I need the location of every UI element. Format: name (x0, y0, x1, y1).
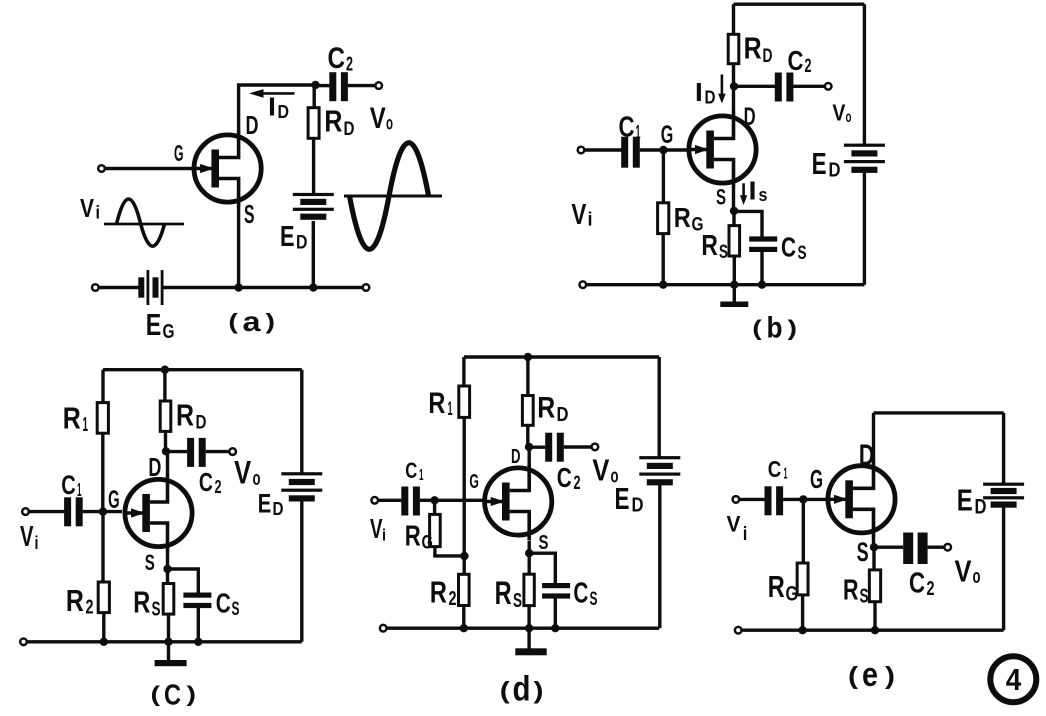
svg-text:G: G (163, 321, 175, 343)
svg-text:D: D (829, 160, 841, 182)
svg-text:R: R (405, 521, 421, 553)
svg-text:i: i (588, 209, 593, 230)
svg-text:C: C (405, 458, 417, 483)
svg-text:): ) (187, 682, 197, 707)
svg-text:1: 1 (784, 466, 788, 483)
svg-text:I: I (268, 92, 276, 122)
svg-text:C: C (573, 578, 588, 610)
svg-text:R: R (537, 392, 555, 425)
svg-text:G: G (810, 464, 823, 494)
svg-text:S: S (145, 550, 155, 575)
svg-text:V: V (234, 454, 252, 490)
svg-text:i: i (35, 533, 39, 553)
svg-text:C: C (788, 45, 804, 76)
svg-text:R: R (674, 202, 691, 233)
svg-text:i: i (743, 524, 748, 545)
svg-text:V: V (370, 102, 386, 135)
svg-text:C: C (768, 456, 782, 482)
svg-text:V: V (592, 453, 609, 488)
svg-text:o: o (386, 114, 393, 135)
svg-text:V: V (20, 521, 34, 553)
svg-text:S: S (798, 243, 807, 264)
svg-text:1: 1 (77, 480, 82, 500)
svg-text:(: ( (151, 682, 161, 707)
svg-text:D: D (278, 102, 290, 122)
svg-text:o: o (973, 566, 981, 588)
svg-text:S: S (539, 532, 549, 554)
svg-text:R: R (428, 387, 445, 420)
svg-text:C: C (557, 462, 572, 493)
svg-text:R: R (744, 31, 762, 66)
svg-text:2: 2 (574, 473, 581, 494)
svg-text:R: R (430, 575, 447, 610)
svg-text:o: o (846, 109, 852, 126)
svg-text:S: S (152, 599, 161, 621)
svg-text:4: 4 (1006, 662, 1022, 697)
svg-text:C: C (328, 42, 346, 75)
svg-text:R: R (66, 583, 84, 618)
svg-text:C: C (199, 467, 213, 497)
svg-text:D: D (273, 499, 284, 519)
svg-text:S: S (860, 586, 869, 608)
svg-text:R: R (63, 400, 81, 435)
svg-text:d: d (513, 670, 531, 709)
svg-text:1: 1 (636, 123, 641, 144)
svg-text:R: R (495, 575, 512, 611)
svg-text:E: E (812, 146, 827, 181)
svg-text:S: S (513, 590, 522, 612)
svg-text:2: 2 (449, 588, 457, 610)
svg-text:e: e (862, 656, 878, 694)
svg-text:D: D (246, 110, 259, 140)
svg-text:(: ( (752, 316, 762, 341)
svg-text:C: C (61, 470, 76, 500)
svg-text:V: V (370, 513, 383, 544)
svg-text:): ) (885, 662, 895, 690)
svg-text:R: R (176, 397, 194, 432)
svg-text:(: ( (500, 678, 510, 705)
svg-text:D: D (975, 496, 987, 519)
svg-text:I: I (749, 176, 757, 206)
svg-text:): ) (534, 678, 544, 705)
svg-text:D: D (344, 119, 355, 140)
svg-text:(: ( (228, 309, 238, 334)
svg-text:D: D (511, 446, 521, 468)
svg-text:S: S (716, 184, 726, 209)
svg-text:G: G (422, 533, 434, 554)
svg-text:2: 2 (805, 56, 812, 77)
svg-text:1: 1 (419, 467, 424, 484)
svg-text:V: V (832, 99, 846, 125)
svg-text:C: C (781, 231, 796, 262)
svg-text:V: V (80, 193, 95, 223)
svg-text:R: R (843, 574, 859, 606)
svg-text:C: C (164, 679, 181, 711)
svg-text:G: G (469, 471, 479, 493)
svg-text:2: 2 (927, 578, 935, 600)
svg-text:i: i (96, 203, 101, 223)
svg-text:s: s (759, 185, 768, 205)
svg-text:G: G (661, 121, 674, 149)
svg-text:o: o (253, 468, 261, 490)
svg-text:D: D (632, 495, 644, 517)
svg-text:S: S (232, 599, 240, 620)
svg-text:D: D (196, 413, 207, 434)
svg-text:S: S (590, 589, 598, 610)
svg-text:2: 2 (86, 597, 94, 619)
svg-text:S: S (857, 537, 869, 567)
svg-text:E: E (280, 221, 295, 253)
svg-text:G: G (786, 583, 799, 606)
svg-text:S: S (719, 242, 728, 263)
svg-text:E: E (258, 489, 272, 519)
svg-text:R: R (701, 230, 718, 262)
svg-text:R: R (133, 585, 150, 620)
svg-text:1: 1 (448, 399, 453, 420)
svg-text:R: R (768, 569, 785, 604)
svg-text:E: E (957, 483, 973, 518)
svg-text:): ) (266, 309, 276, 334)
svg-text:): ) (788, 316, 798, 341)
svg-text:D: D (763, 46, 773, 67)
svg-text:D: D (557, 404, 569, 426)
svg-text:C: C (216, 588, 231, 619)
svg-text:2: 2 (346, 54, 353, 76)
svg-text:D: D (705, 87, 716, 107)
svg-text:2: 2 (215, 477, 222, 497)
svg-text:V: V (727, 511, 741, 536)
svg-text:E: E (146, 307, 162, 342)
svg-text:G: G (108, 486, 120, 514)
svg-text:i: i (382, 526, 386, 545)
svg-text:b: b (767, 312, 783, 345)
svg-text:a: a (243, 306, 261, 337)
svg-text:D: D (859, 439, 875, 472)
svg-text:D: D (148, 452, 161, 482)
svg-text:D: D (744, 103, 756, 131)
svg-text:E: E (615, 481, 630, 516)
svg-text:I: I (695, 77, 703, 107)
svg-text:S: S (244, 199, 255, 229)
svg-text:V: V (955, 553, 972, 588)
svg-text:D: D (296, 232, 308, 253)
svg-text:V: V (571, 199, 587, 231)
svg-text:1: 1 (83, 414, 89, 436)
svg-text:R: R (324, 104, 342, 139)
svg-text:G: G (174, 140, 184, 166)
svg-text:C: C (909, 568, 925, 600)
svg-text:C: C (619, 112, 635, 144)
svg-text:(: ( (848, 662, 859, 690)
